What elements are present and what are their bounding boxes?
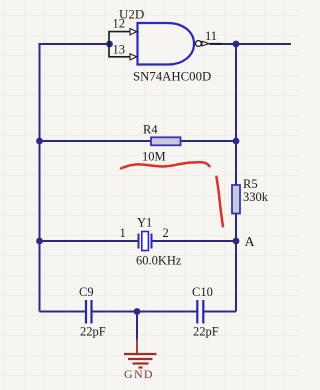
node junction at gate output	[233, 41, 240, 48]
svg-text:Y1: Y1	[137, 216, 152, 230]
node junction at gate input split	[106, 41, 113, 48]
svg-text:2: 2	[163, 226, 169, 240]
svg-text:1: 1	[120, 226, 126, 240]
svg-text:10M: 10M	[142, 150, 166, 164]
svg-text:60.0KHz: 60.0KHz	[136, 254, 182, 268]
NAND gate U2D body	[138, 23, 195, 65]
pin 12 line	[109, 32, 130, 44]
svg-text:C10: C10	[192, 285, 213, 299]
node junction ground	[134, 308, 141, 315]
node junction left Y1	[36, 238, 43, 245]
svg-text:12: 12	[113, 17, 126, 31]
capacitor C9	[86, 300, 92, 324]
svg-text:11: 11	[205, 29, 217, 43]
node junction right R4	[233, 138, 240, 145]
svg-text:A: A	[245, 235, 256, 250]
svg-text:13: 13	[113, 43, 126, 57]
red annotation stroke near R5	[216, 177, 223, 227]
output bubble	[196, 41, 202, 47]
svg-text:330k: 330k	[243, 190, 269, 204]
svg-text:R5: R5	[243, 177, 258, 191]
pin 11 line	[209, 43, 222, 45]
wire ground stem	[136, 312, 138, 341]
crystal Y1	[139, 232, 152, 251]
red annotation underline under 10M	[121, 162, 210, 168]
node junction left R4	[36, 138, 43, 145]
pin 13 arrow	[130, 54, 137, 60]
pin 11 arrow	[202, 41, 209, 46]
resistor R4	[151, 137, 181, 145]
resistor R5	[232, 185, 240, 214]
wire right rail	[235, 44, 237, 312]
svg-text:C9: C9	[79, 285, 94, 299]
node A junction	[233, 238, 240, 245]
wire output to right edge	[210, 43, 291, 45]
pin 13 line	[109, 44, 130, 57]
ground	[124, 339, 157, 368]
wire Y1 row	[40, 240, 237, 242]
svg-text:R4: R4	[143, 123, 158, 137]
svg-text:GND: GND	[124, 367, 154, 381]
pin 12 arrow	[130, 29, 137, 35]
svg-text:22pF: 22pF	[80, 325, 106, 339]
svg-text:22pF: 22pF	[193, 325, 219, 339]
wire left rail	[40, 44, 110, 312]
wire R4 row	[40, 140, 237, 142]
capacitor C10	[197, 300, 203, 324]
wire bottom row	[40, 311, 237, 313]
svg-text:SN74AHC00D: SN74AHC00D	[133, 70, 211, 84]
